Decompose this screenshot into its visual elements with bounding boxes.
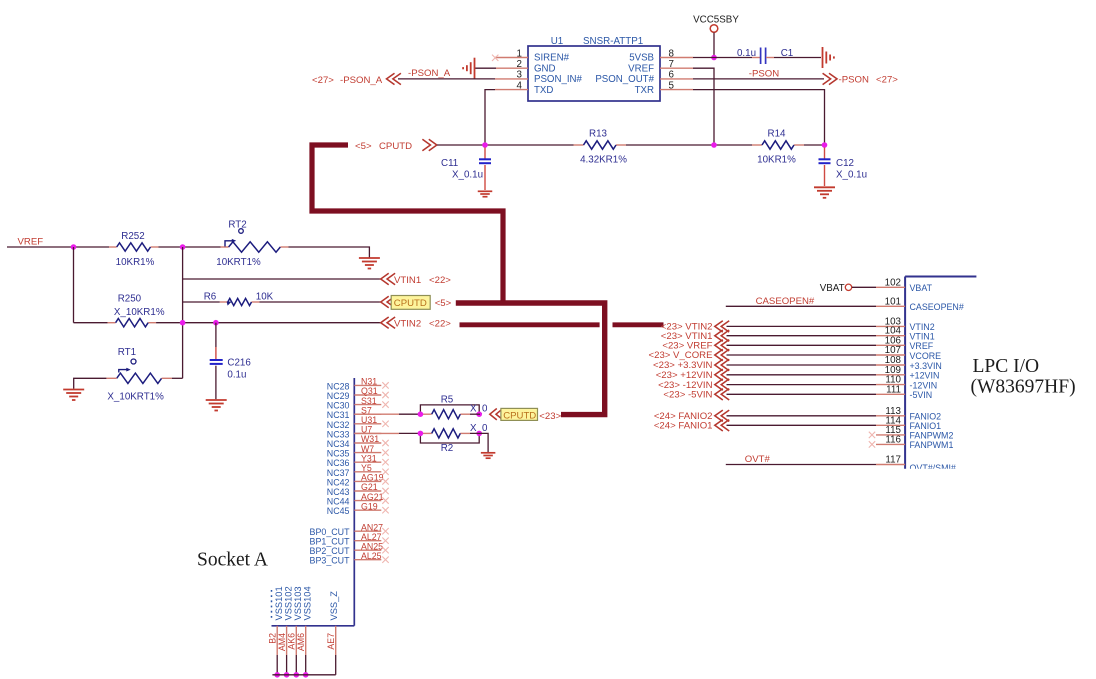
wire B2 to VSS bus [276, 655, 278, 675]
svg-text:BP0_CUT: BP0_CUT [310, 527, 351, 537]
svg-text:4: 4 [517, 80, 523, 91]
thick bus VTIN2 left segment [460, 322, 600, 327]
junction R5 left [418, 411, 424, 417]
svg-text:C11: C11 [441, 158, 458, 169]
svg-text:<27>: <27> [312, 75, 334, 86]
LPC pin 103 stub [876, 325, 905, 327]
junction R2 left [418, 431, 424, 437]
LPC pin 107 stub [876, 354, 905, 356]
capacitor C216 lead [215, 347, 217, 360]
svg-text:CASEOPEN#: CASEOPEN# [756, 296, 815, 307]
wire VTIN2 node down to C216 [215, 323, 217, 347]
RT1 body circle [131, 359, 136, 364]
svg-text:OVT#: OVT# [745, 454, 771, 465]
wire C11 to ground [484, 165, 486, 190]
wire VBAT to pin 102 [852, 286, 876, 288]
power VCC5SBY symbol [710, 25, 718, 33]
resistor R250 [116, 319, 149, 327]
svg-text:FANPWM2: FANPWM2 [910, 431, 954, 441]
junction at VCC5SBY and 5VSB [711, 55, 717, 61]
off-page connector VTIN1 [381, 273, 395, 284]
svg-text:LPC I/O: LPC I/O [973, 356, 1040, 377]
wire C216 to ground [215, 366, 217, 400]
junction C12 node [822, 142, 828, 148]
svg-text:VTIN1: VTIN1 [394, 275, 421, 286]
wire C12 to ground [824, 165, 826, 186]
capacitor C1 lead right [766, 57, 774, 59]
off-page connector VTIN2 at LPC [715, 321, 729, 332]
wire pin5 TXR down to C12 node [693, 90, 825, 145]
LPC pin name OVT#/SMI# [910, 463, 956, 473]
svg-text:X_0.1u: X_0.1u [836, 170, 867, 181]
svg-text:AM4: AM4 [277, 633, 287, 651]
svg-text:Q31: Q31 [361, 386, 378, 396]
svg-text:R250: R250 [118, 294, 142, 305]
wire R14 to C12 node [804, 144, 825, 146]
svg-text:+3.3VIN: +3.3VIN [910, 361, 942, 371]
LPC pin 111 stub [876, 393, 905, 395]
wire node to C12 [824, 148, 826, 159]
off-page connector +3.3VIN at LPC [715, 359, 729, 370]
wire CASEOPEN# net [726, 305, 876, 307]
svg-text:VTIN2: VTIN2 [394, 319, 421, 330]
svg-text:VBAT: VBAT [910, 283, 933, 293]
wire R13 to node [626, 144, 752, 146]
wire RT1 right to VTIN2 row [172, 377, 183, 379]
thick bus CPUTD <5> to <23> [456, 303, 605, 415]
Socket A pin AG19 stub [354, 480, 381, 482]
svg-text:10KR1%: 10KR1% [757, 155, 796, 166]
svg-text:<23>: <23> [539, 411, 561, 422]
no-connect X on pin AG19 [382, 478, 388, 484]
svg-text:VCORE: VCORE [910, 351, 942, 361]
resistor R14 [762, 141, 794, 149]
svg-text:AN25: AN25 [361, 541, 383, 551]
RT2 body circle [239, 229, 244, 234]
svg-text:<22>: <22> [429, 275, 451, 286]
U1 pin 7 stub [660, 67, 693, 69]
wire AM4 to VSS bus [286, 655, 288, 675]
svg-text:NC43: NC43 [327, 487, 350, 497]
thermistor RT1 [117, 373, 162, 383]
resistor R6 leads [220, 301, 228, 303]
svg-text:+12VIN: +12VIN [910, 371, 940, 381]
svg-text:102: 102 [885, 277, 901, 288]
svg-text:GND: GND [534, 63, 556, 74]
capacitor C1 lead left [752, 57, 760, 59]
junction B2 on VSS bus [274, 672, 280, 678]
svg-text:NC42: NC42 [327, 477, 350, 487]
svg-text:CASEOPEN#: CASEOPEN# [910, 302, 964, 312]
U1 pin 4 stub [495, 89, 528, 91]
svg-text:S31: S31 [361, 396, 377, 406]
Socket A pin U31 stub [354, 423, 381, 425]
thermistor RT2 leads [221, 246, 229, 248]
no-connect X on pin U31 [382, 421, 388, 427]
capacitor C216 plates [210, 359, 223, 361]
wire AK6 to VSS bus [295, 655, 297, 675]
svg-text:X_10KRT1%: X_10KRT1% [107, 392, 164, 403]
no-connect X on pin 115 [869, 432, 875, 438]
no-connect X on pin Y31 [382, 459, 388, 465]
svg-text:AN27: AN27 [361, 522, 383, 532]
svg-text:101: 101 [885, 296, 901, 307]
svg-text:AM6: AM6 [296, 633, 306, 651]
svg-text:116: 116 [885, 434, 901, 445]
svg-text:2: 2 [517, 59, 522, 70]
Socket A pin Y5 stub [354, 471, 381, 473]
svg-text:VREF: VREF [18, 237, 44, 248]
resistor R2 leads [420, 432, 431, 434]
svg-text:8: 8 [669, 48, 675, 59]
svg-text:R2: R2 [441, 443, 454, 454]
U1 pin 5 stub [660, 89, 693, 91]
wire OVT# net [726, 464, 876, 466]
svg-text:R13: R13 [589, 129, 608, 140]
wire C1 to ground [774, 57, 821, 59]
svg-text:6: 6 [669, 70, 675, 81]
connector Socket A right edge [353, 378, 355, 626]
svg-text:AG19: AG19 [361, 473, 384, 483]
svg-text:NC29: NC29 [327, 391, 350, 401]
svg-text:BP3_CUT: BP3_CUT [310, 556, 351, 566]
resistor R252 [117, 243, 151, 251]
svg-text:5: 5 [669, 80, 675, 91]
svg-text:R5: R5 [441, 394, 454, 405]
off-page connector -PSON [823, 73, 837, 84]
svg-text:NC45: NC45 [327, 506, 350, 516]
RT1 adjust arrow [119, 370, 127, 373]
LPC pin 116 stub [876, 443, 905, 445]
ground below RT1 [63, 389, 84, 391]
svg-text:C12: C12 [836, 158, 854, 169]
wire pin8 to C1 [693, 57, 752, 59]
junction AM4 on VSS bus [284, 672, 290, 678]
LPC pin 108 stub [876, 364, 905, 366]
wire V_CORE to LPC [727, 354, 877, 356]
svg-text:SIREN#: SIREN# [534, 53, 570, 64]
no-connect X on pin G19 [382, 507, 388, 513]
svg-text:4.32KR1%: 4.32KR1% [580, 155, 627, 166]
wire -12VIN to LPC [727, 384, 877, 386]
wire +12VIN to LPC [727, 374, 877, 376]
svg-text:VCC5SBY: VCC5SBY [693, 15, 739, 26]
svg-text:NC28: NC28 [327, 381, 350, 391]
no-connect X on pin AN27 [382, 528, 388, 534]
wire R5 to CPUTD connector [470, 413, 480, 415]
Socket A pin AN27 stub [354, 530, 381, 532]
no-connect X on pin N31 [382, 382, 388, 388]
svg-text:RT2: RT2 [228, 220, 246, 231]
junction AK6 on VSS bus [294, 672, 300, 678]
LPC I/O chip left edge [904, 277, 906, 469]
wire VREF to LPC [727, 344, 877, 346]
wire RT2 node down to RT1 row [182, 247, 184, 378]
svg-text:<5>: <5> [435, 298, 452, 309]
wire S7 to R5 [354, 413, 399, 415]
Socket A bottom pin AK6 stub [295, 626, 297, 655]
resistor R13 [584, 141, 617, 149]
off-page connector FANIO1 at LPC [715, 420, 729, 431]
wire FANIO2 to LPC [727, 415, 877, 417]
svg-text:-PSON_A: -PSON_A [340, 75, 383, 86]
svg-text:<24> FANIO1: <24> FANIO1 [654, 421, 713, 432]
wire ground to U1 pin 2 [475, 67, 496, 69]
svg-text:PSON_OUT#: PSON_OUT# [595, 74, 654, 85]
svg-text:-5VIN: -5VIN [910, 390, 933, 400]
Socket A pin G21 stub [354, 490, 381, 492]
Socket A pin AN25 stub [354, 549, 381, 551]
svg-text:<5>: <5> [355, 141, 372, 152]
svg-text:G21: G21 [361, 482, 378, 492]
wire -PSON net [693, 78, 824, 80]
wire VTIN1 to LPC [727, 335, 877, 337]
Socket A pin S7 stub [354, 413, 381, 415]
svg-text:W31: W31 [361, 434, 379, 444]
RT1 lead left [106, 377, 116, 379]
svg-text:10KR1%: 10KR1% [116, 257, 155, 268]
resistor R2 bypass loop [420, 433, 479, 443]
svg-text:NC33: NC33 [327, 429, 350, 439]
wire AE7 to VSS bus [335, 655, 337, 675]
ground below C11 [478, 190, 493, 192]
svg-text:NC37: NC37 [327, 468, 350, 478]
no-connect X on pin S31 [382, 401, 388, 407]
svg-text:X_10KR1%: X_10KR1% [114, 307, 165, 318]
wire RT2 to ground [289, 247, 370, 258]
wire VTIN2 to LPC [727, 325, 877, 327]
wire R6 to CPUTD connector [260, 301, 381, 303]
svg-text:NC44: NC44 [327, 497, 350, 507]
resistor R250 leads [108, 322, 116, 324]
svg-text:TXR: TXR [635, 85, 654, 96]
wire FANIO1 to LPC [727, 424, 877, 426]
Socket A pin G19 stub [354, 509, 381, 511]
Socket A pin AL27 stub [354, 540, 381, 542]
svg-text:<23> -5VIN: <23> -5VIN [663, 390, 712, 401]
ground below R2 [481, 452, 496, 454]
thermistor RT2 [229, 242, 281, 252]
svg-text:VSS104: VSS104 [303, 586, 313, 620]
no-connect X on pin W7 [382, 449, 388, 455]
resistor R5 bypass loop [420, 405, 479, 414]
svg-text:RT1: RT1 [118, 347, 136, 358]
U1 pin 2 stub [496, 67, 528, 69]
wire -PSON_A net [398, 78, 495, 80]
svg-text:CPUTD: CPUTD [394, 298, 427, 309]
capacitor C1 plates [760, 48, 762, 65]
junction pin4/C11 node [482, 142, 488, 148]
svg-text:NC32: NC32 [327, 420, 350, 430]
ground at U1 pin 2 [474, 58, 476, 79]
Socket A pin W7 stub [354, 452, 381, 454]
svg-text:<27>: <27> [876, 75, 898, 86]
svg-text:N31: N31 [361, 377, 377, 387]
ground below C12 [814, 186, 835, 188]
junction R5 right [476, 411, 482, 417]
junction VREF node [711, 142, 717, 148]
svg-text:VREF: VREF [628, 63, 654, 74]
wire node to C11 [484, 148, 486, 159]
resistor R252 leads [109, 246, 117, 248]
Socket A dotted continuation marks [271, 590, 273, 619]
Socket A pin W31 stub [354, 442, 381, 444]
no-connect X on pin AL27 [382, 538, 388, 544]
off-page connector FANIO2 at LPC [715, 410, 729, 421]
svg-text:-12VIN: -12VIN [910, 380, 938, 390]
svg-text:(W83697HF): (W83697HF) [971, 377, 1076, 398]
off-page connector VTIN1 at LPC [715, 330, 729, 341]
junction C216 branch on VTIN2 row [213, 320, 219, 326]
no-connect X on pin G21 [382, 488, 388, 494]
ground right of C1 [822, 47, 824, 68]
wire VSS bus [272, 674, 335, 676]
wire R252 to RT2 [159, 246, 221, 248]
svg-text:R252: R252 [121, 231, 144, 242]
LPC pin 114 stub [876, 424, 905, 426]
no-connect X on pin Q31 [382, 392, 388, 398]
wire R6 left [183, 301, 220, 303]
svg-text:VTIN1: VTIN1 [910, 332, 935, 342]
junction RT1 branch on VTIN2 row [180, 320, 186, 326]
off-page connector V_CORE at LPC [715, 349, 729, 360]
svg-text:FANPWM1: FANPWM1 [910, 440, 954, 450]
Socket A pin Y31 stub [354, 461, 381, 463]
svg-text:-PSON_A: -PSON_A [408, 68, 451, 79]
svg-text:NC31: NC31 [327, 410, 350, 420]
junction R252/RT2 node [180, 244, 186, 250]
IC U1 body [528, 46, 660, 101]
resistor R5 leads [420, 413, 431, 415]
LPC pin 101 stub [876, 305, 905, 307]
svg-text:TXD: TXD [534, 85, 553, 96]
off-page connector -5VIN at LPC [715, 389, 729, 400]
svg-text:CPUTD: CPUTD [503, 411, 536, 422]
highlighted net label CPUTD at R5 [501, 408, 538, 420]
Socket A bottom pin AM4 stub [286, 626, 288, 655]
LPC pin 113 stub [876, 415, 905, 417]
svg-text:VSS_Z: VSS_Z [329, 591, 339, 621]
svg-text:Socket A: Socket A [197, 550, 268, 571]
wire VTIN2 row left [74, 322, 108, 324]
highlighted net label CPUTD [391, 296, 430, 310]
svg-text:SNSR-ATTP1: SNSR-ATTP1 [583, 36, 643, 47]
wire VREF net [7, 246, 109, 248]
LPC pin 117 stub [876, 464, 905, 466]
off-page connector -12VIN at LPC [715, 379, 729, 390]
LPC pin 106 stub [876, 344, 905, 346]
no-connect X on pin AG21 [382, 497, 388, 503]
svg-text:R14: R14 [768, 129, 787, 140]
resistor R13 leads [574, 144, 584, 146]
ground below C216 [206, 399, 227, 401]
Socket A bottom pin B2 stub [276, 626, 278, 655]
thick bus VTIN2 right segment [613, 322, 664, 327]
resistor R14 leads [752, 144, 762, 146]
LPC pin 104 stub [876, 335, 905, 337]
svg-text:BP1_CUT: BP1_CUT [310, 537, 351, 547]
svg-text:3: 3 [517, 70, 523, 81]
connector Socket A bottom edge [272, 625, 355, 627]
Socket A pin AG21 stub [354, 500, 381, 502]
svg-text:-PSON: -PSON [749, 69, 779, 80]
LPC pin 102 stub [876, 286, 905, 288]
wire +3.3VIN to LPC [727, 364, 877, 366]
svg-text:111: 111 [886, 384, 901, 395]
no-connect X on U1 pin 1 [492, 55, 498, 61]
Socket A pin N31 stub [354, 384, 381, 386]
off-page connector CPUTD <23> [490, 409, 503, 420]
wire -5VIN to LPC [727, 393, 877, 395]
wire pin7 VREF down to R13-R14 node [693, 68, 714, 145]
wire CPUTD row [437, 144, 574, 146]
svg-text:R6: R6 [204, 292, 217, 303]
svg-text:1: 1 [517, 48, 522, 59]
LPC pin 109 stub [876, 374, 905, 376]
capacitor C12 plates [819, 158, 831, 160]
svg-text:10KRT1%: 10KRT1% [216, 257, 261, 268]
svg-text:NC30: NC30 [327, 401, 350, 411]
wire U1 pin4 down to CPUTD net [485, 90, 495, 145]
resistor R5 [432, 410, 461, 419]
svg-text:X_0.1u: X_0.1u [452, 170, 483, 181]
wire AM6 to VSS bus [305, 655, 307, 675]
LPC pin 115 stub [876, 434, 905, 436]
resistor R2 [432, 429, 461, 438]
svg-text:10K: 10K [256, 292, 274, 303]
junction VREF/R250 branch [71, 244, 77, 250]
svg-text:CPUTD: CPUTD [379, 141, 412, 152]
wire U7 to R2 [354, 432, 399, 434]
U1 pin 1 stub [495, 57, 528, 59]
no-connect X on pin Y5 [382, 469, 388, 475]
off-page connector -PSON_A [387, 73, 401, 84]
svg-text:BP2_CUT: BP2_CUT [310, 546, 351, 556]
svg-text:Y5: Y5 [361, 463, 372, 473]
ground right of RT2 [359, 257, 380, 259]
svg-text:7: 7 [669, 59, 674, 70]
svg-text:117: 117 [885, 455, 901, 466]
RT2 adjust arrow [225, 241, 233, 247]
wire R250 to VTIN2 connector [156, 322, 380, 324]
off-page connector VREF at LPC [715, 340, 729, 351]
off-page connector VTIN2 [381, 317, 395, 328]
wire RT1 left to ground [74, 378, 107, 389]
wire R2 to ground [470, 433, 488, 452]
Socket A pin S31 stub [354, 404, 381, 406]
Socket A bottom pin AM6 stub [305, 626, 307, 655]
svg-text:0.1u: 0.1u [227, 370, 246, 381]
off-page connector CPUTD <5> [381, 296, 395, 307]
off-page connector +12VIN at LPC [715, 369, 729, 380]
U1 pin 6 stub [660, 78, 693, 80]
Socket A bottom pin AE7 stub [335, 626, 337, 655]
svg-text:VREF: VREF [910, 341, 934, 351]
svg-text:G19: G19 [361, 501, 378, 511]
svg-text:5VSB: 5VSB [629, 53, 654, 64]
svg-text:VBAT: VBAT [820, 283, 845, 294]
svg-text:NC34: NC34 [327, 439, 350, 449]
svg-text:U1: U1 [551, 36, 564, 47]
junction AM6 on VSS bus [303, 672, 309, 678]
svg-text:U31: U31 [361, 415, 377, 425]
no-connect X on pin W31 [382, 440, 388, 446]
thick bus CPUTD from <5> label [312, 145, 503, 303]
U1 pin 8 stub [660, 57, 693, 59]
svg-text:W7: W7 [361, 444, 374, 454]
VBAT open circle [845, 284, 851, 290]
U1 pin 3 stub [495, 78, 528, 80]
